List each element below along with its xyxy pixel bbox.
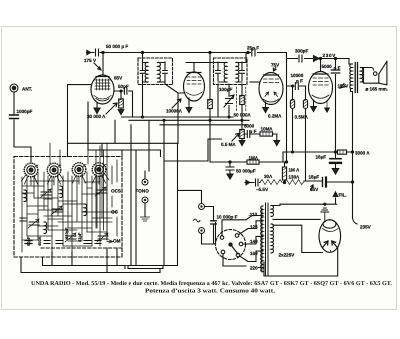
svg-text:175 V: 175 V bbox=[84, 58, 97, 63]
resistor 0.2M bbox=[292, 86, 294, 152]
svg-text:10 000p F: 10 000p F bbox=[217, 214, 238, 219]
svg-text:0.5 MΛ: 0.5 MΛ bbox=[221, 142, 236, 147]
coil T4 filament bbox=[271, 205, 274, 216]
svg-text:0.5MΛ: 0.5MΛ bbox=[295, 115, 309, 120]
svg-text:2x225V: 2x225V bbox=[279, 253, 296, 258]
coil L4 bbox=[60, 186, 63, 198]
OM arrow bbox=[107, 240, 113, 243]
trimmer a bbox=[40, 189, 51, 198]
capacitor 10000pF coupling bbox=[287, 85, 306, 87]
wire T3 primary leads bbox=[349, 59, 353, 153]
wire top B+ line bbox=[90, 52, 248, 54]
svg-text:140: 140 bbox=[250, 239, 258, 244]
svg-text:10MΛ: 10MΛ bbox=[261, 127, 274, 132]
svg-text:1MΛ: 1MΛ bbox=[249, 156, 259, 161]
wire filament line bbox=[271, 204, 280, 205]
resistor 0.5M grid bbox=[305, 86, 307, 181]
trimmer f bbox=[28, 219, 39, 228]
svg-text:p F: p F bbox=[296, 79, 303, 84]
capacitor pad row bbox=[25, 241, 32, 244]
svg-text:65V: 65V bbox=[310, 187, 319, 192]
svg-text:300pF: 300pF bbox=[295, 49, 308, 54]
svg-text:235V: 235V bbox=[360, 225, 372, 230]
svg-text:–5.5V: –5.5V bbox=[256, 187, 269, 192]
tube V2 6SK7 bbox=[184, 72, 205, 101]
svg-text:100pF: 100pF bbox=[219, 87, 232, 92]
capacitor 5000pF tone bbox=[244, 133, 260, 135]
svg-text:50pF: 50pF bbox=[118, 84, 129, 89]
volume pot 0.5M bbox=[241, 120, 243, 141]
wire grid left into V1 bbox=[68, 85, 92, 157]
wire V4 cathode grounds bbox=[313, 100, 315, 106]
svg-text:UNDA RADIO - Mod. 55/19 - Medi: UNDA RADIO - Mod. 55/19 - Medie e due co… bbox=[31, 280, 393, 287]
coil secondary T1 bbox=[158, 62, 161, 82]
wire T1 internal top bbox=[143, 63, 166, 83]
svg-text:⌀ 165 mm.: ⌀ 165 mm. bbox=[366, 87, 388, 92]
wafer B bbox=[47, 163, 61, 177]
capacitor 18uF bbox=[322, 178, 324, 187]
capacitor 1000pF bbox=[10, 115, 19, 119]
antenna bbox=[10, 84, 18, 92]
trimmer e bbox=[97, 233, 108, 242]
svg-text:OCS: OCS bbox=[111, 189, 121, 194]
svg-text:230V: 230V bbox=[323, 53, 337, 58]
wire V3 grid left bbox=[250, 81, 259, 83]
wire V2 plate up to T2 bbox=[186, 63, 227, 73]
svg-text:125: 125 bbox=[250, 225, 258, 230]
svg-text:FONO: FONO bbox=[136, 189, 150, 194]
coil T4 HV bbox=[271, 224, 274, 253]
IF transformer T1 dashed box bbox=[138, 58, 173, 85]
svg-text:ANT.: ANT. bbox=[22, 87, 32, 92]
coil box wiring mesh bbox=[22, 143, 117, 252]
wire tube1 plate bbox=[102, 53, 104, 76]
mains terminals bbox=[199, 204, 205, 210]
voltage selector bbox=[216, 230, 246, 260]
wire 10000 arrow label line bbox=[172, 99, 181, 108]
resistor 1M vertical bbox=[284, 162, 286, 183]
resistor 1M horizontal bbox=[247, 160, 259, 164]
wafer D bbox=[92, 163, 106, 177]
trimmer c bbox=[65, 233, 76, 242]
IF transformer T2 dashed box bbox=[214, 58, 248, 85]
capacitor 50pF bbox=[114, 91, 133, 117]
svg-text:18μF: 18μF bbox=[309, 175, 320, 180]
svg-text:OC: OC bbox=[111, 210, 119, 215]
node plate V1 bbox=[102, 51, 104, 53]
resistor 50000ohm diode load bbox=[241, 84, 243, 120]
svg-text:10000: 10000 bbox=[291, 73, 304, 78]
svg-text:30Λ: 30Λ bbox=[264, 174, 273, 179]
output transformer T3 core bbox=[355, 63, 357, 93]
svg-text:5000: 5000 bbox=[322, 64, 333, 69]
coil box dashed bbox=[14, 157, 122, 258]
svg-text:p F: p F bbox=[250, 129, 257, 134]
cathode symbol above bbox=[321, 208, 329, 220]
capacitor T2 primary bbox=[217, 62, 219, 81]
capacitor 16uF bbox=[335, 152, 337, 169]
svg-text:130Λ: 130Λ bbox=[289, 175, 301, 180]
svg-text:50 000 p F: 50 000 p F bbox=[106, 44, 128, 49]
svg-text:FIL.: FIL. bbox=[339, 193, 347, 198]
svg-text:Potenza d’uscita 3 watt. Consu: Potenza d’uscita 3 watt. Consumo 40 watt… bbox=[145, 288, 276, 295]
svg-text:220: 220 bbox=[250, 266, 258, 271]
power transformer T4 core bbox=[266, 203, 269, 276]
svg-text:.110: .110 bbox=[249, 212, 258, 217]
wire 65V arrow bbox=[311, 185, 313, 190]
wire antenna down bbox=[14, 92, 31, 162]
coil T3 secondary bbox=[360, 67, 363, 82]
svg-text:30 000 Λ: 30 000 Λ bbox=[87, 114, 106, 119]
svg-text:3000 Λ: 3000 Λ bbox=[355, 151, 370, 156]
wire T1 leads down bbox=[143, 81, 184, 118]
svg-text:16μF: 16μF bbox=[316, 155, 327, 160]
capacitor T2 secondary bbox=[241, 62, 243, 81]
capacitor bias bbox=[256, 179, 259, 186]
wire rectifier bottom loop bbox=[264, 248, 338, 277]
svg-text:41pF: 41pF bbox=[77, 232, 82, 242]
wire HV to rectifier plates bbox=[273, 218, 320, 220]
svg-text:50 000Λ: 50 000Λ bbox=[234, 113, 252, 118]
svg-text:1000pF: 1000pF bbox=[17, 109, 33, 114]
wire 235V tube link bbox=[330, 250, 332, 252]
wire bias line bbox=[250, 182, 261, 184]
wire 1M AF line bbox=[210, 161, 287, 163]
coil primary T1 bbox=[145, 62, 148, 82]
svg-text:65V: 65V bbox=[114, 76, 123, 81]
wire 175V arrow bbox=[94, 63, 101, 70]
wire 30000 arrow bbox=[106, 103, 117, 114]
wire V3 cathode chassis bbox=[265, 102, 267, 107]
svg-text:50pF: 50pF bbox=[26, 236, 31, 246]
wire T2 top feed bbox=[218, 53, 246, 118]
selector tap wires bbox=[248, 221, 263, 268]
wafer C bbox=[72, 163, 86, 177]
wire T3 secondary to speaker bbox=[362, 68, 364, 83]
coil L3 bbox=[84, 204, 87, 216]
svg-text:160: 160 bbox=[250, 251, 258, 256]
wire V2 grid down bbox=[177, 93, 179, 143]
speaker cone bbox=[379, 61, 387, 85]
tube V3 6SQ7 bbox=[259, 73, 283, 105]
svg-text:5000: 5000 bbox=[244, 124, 255, 129]
coil T3 primary bbox=[350, 64, 353, 89]
wire channel horizontals bbox=[68, 143, 179, 156]
wire V1 side down bbox=[87, 102, 89, 150]
resistor V2 screen on bus bbox=[209, 53, 211, 163]
svg-text:150V: 150V bbox=[338, 84, 350, 89]
FONO jacks bbox=[142, 179, 148, 185]
capacitor 50000pF bbox=[96, 49, 99, 56]
wafer lead fans bbox=[22, 174, 110, 186]
svg-text:75V: 75V bbox=[271, 63, 280, 68]
wire B+ node y=152 bbox=[283, 152, 353, 162]
capacitor 25pF bbox=[248, 53, 287, 59]
wire detector bus x=286.5 bbox=[286, 59, 288, 163]
coil L1 bbox=[24, 190, 27, 202]
resistor 30ohm zigzag bbox=[260, 180, 282, 185]
svg-text:10000Λ: 10000Λ bbox=[166, 109, 183, 114]
resistor 130ohm zigzag bbox=[285, 180, 305, 185]
svg-text:p F: p F bbox=[334, 66, 341, 71]
wire 235V drop bbox=[353, 152, 358, 224]
capacitor 5000pF screen bbox=[335, 59, 337, 153]
wire 150V arrow bbox=[340, 84, 346, 89]
wafer A bbox=[24, 163, 38, 177]
svg-text:25p F: 25p F bbox=[247, 46, 259, 51]
resistor 10M bbox=[273, 134, 277, 141]
svg-text:0.2MΛ: 0.2MΛ bbox=[268, 114, 282, 119]
resistor 30000ohm cathode bbox=[120, 91, 122, 110]
resistor 3000ohm bbox=[338, 150, 347, 154]
coil L2 bbox=[44, 222, 47, 234]
wire AVC buses bbox=[122, 117, 250, 125]
svg-text:410pF: 410pF bbox=[64, 227, 69, 239]
svg-text:50 000μF: 50 000μF bbox=[236, 169, 256, 174]
trimmer d bbox=[95, 187, 106, 196]
coil primary T2 bbox=[224, 62, 227, 82]
coil secondary T2 bbox=[236, 62, 239, 82]
trimmer b bbox=[51, 206, 62, 215]
capacitor 50000pF AF bbox=[229, 162, 231, 175]
bus below box bbox=[21, 257, 160, 273]
wire cathode chassis arrow bbox=[96, 103, 98, 108]
capacitor 300pF bbox=[287, 58, 313, 60]
capacitor 10000pF mains bbox=[211, 221, 217, 224]
svg-text:1M Λ: 1M Λ bbox=[289, 168, 301, 173]
wire FIL line bbox=[280, 198, 337, 204]
svg-text:OM: OM bbox=[113, 239, 121, 244]
wire grid arrow V4 bbox=[314, 56, 320, 62]
capacitor T1 primary bbox=[142, 62, 144, 81]
wire T2 secondary down + 100pF variable bbox=[228, 84, 230, 117]
capacitor T1 secondary bbox=[164, 62, 166, 81]
wire T1 top feed bbox=[142, 53, 144, 63]
coil T4 primary bbox=[261, 206, 263, 272]
tube V4 6V6 bbox=[309, 72, 333, 104]
tube V1 6SA7 bbox=[91, 75, 114, 104]
speaker magnet bbox=[364, 68, 374, 71]
svg-text:400Λ: 400Λ bbox=[37, 236, 42, 246]
wire T2 internal bbox=[218, 63, 242, 83]
tube V5 6X5 rectifier bbox=[319, 220, 341, 253]
wire 75V arrow bbox=[273, 67, 276, 71]
wire V2 cathode bbox=[188, 98, 190, 107]
wire bus drops bbox=[115, 120, 222, 265]
